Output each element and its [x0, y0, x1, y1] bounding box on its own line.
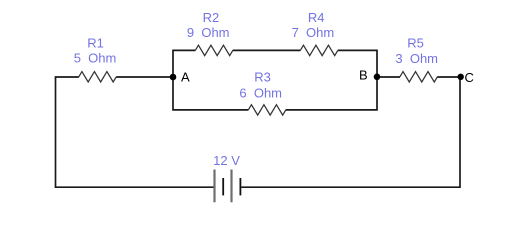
svg-text:R2: R2: [203, 10, 220, 25]
battery plate tall (gray): [230, 170, 232, 203]
wire R2 to R4: [233, 49, 301, 51]
node B: [374, 74, 381, 81]
wire right vertical: [459, 77, 461, 187]
svg-text:B: B: [359, 68, 368, 83]
battery plate short (right, negative): [239, 178, 241, 195]
svg-text:C: C: [465, 70, 474, 85]
svg-text:R4: R4: [308, 10, 325, 25]
node C: [458, 74, 464, 80]
resistor R5: [400, 72, 438, 82]
resistor R2: [195, 45, 233, 55]
wire node B to R5: [377, 76, 400, 78]
wire top left: [55, 76, 79, 78]
node A: [170, 74, 177, 81]
svg-text:12 V: 12 V: [213, 153, 240, 168]
battery plate tall (left, positive): [213, 170, 215, 203]
wire R5 to node C: [437, 76, 461, 78]
wire R1 to node A: [116, 76, 173, 78]
svg-text:6 Ohm: 6 Ohm: [239, 86, 282, 101]
svg-text:R5: R5: [407, 35, 424, 50]
svg-text:7 Ohm: 7 Ohm: [292, 25, 335, 40]
wire bottom right: [241, 186, 461, 188]
wire node A down to middle branch: [173, 77, 248, 110]
svg-text:A: A: [181, 70, 190, 85]
svg-text:R1: R1: [87, 36, 104, 51]
wire bottom left: [55, 186, 214, 188]
battery V1 12 V: [215, 170, 241, 203]
svg-text:5 Ohm: 5 Ohm: [74, 51, 117, 66]
battery plate short (black): [222, 178, 224, 195]
wire R3 to node B vertical: [286, 77, 377, 110]
wire left vertical: [55, 77, 57, 187]
resistor R4: [300, 45, 338, 55]
svg-text:9 Ohm: 9 Ohm: [187, 25, 230, 40]
svg-text:3 Ohm: 3 Ohm: [395, 51, 438, 66]
wire R4 to node B corner: [338, 50, 377, 77]
wire node A up to top branch: [173, 50, 195, 77]
svg-text:R3: R3: [254, 69, 271, 84]
resistor R1: [79, 72, 117, 82]
resistor R3: [248, 105, 285, 115]
